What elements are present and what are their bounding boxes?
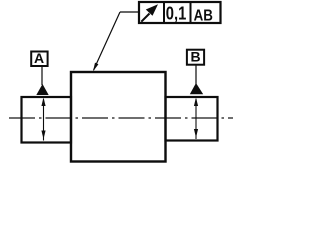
leader from FCF to middle section: horizontal segment — [120, 11, 139, 13]
left dimension down arrowhead — [41, 131, 45, 140]
shaft right journal (small rectangle) — [166, 97, 218, 141]
datum A filled triangle — [36, 84, 48, 95]
svg-text:A: A — [34, 50, 44, 66]
shaft left journal (small rectangle) — [22, 97, 72, 143]
right dimension up arrowhead — [194, 98, 198, 107]
circular runout symbol (slanted arrow) tail — [141, 14, 149, 22]
centerline (shaft axis, dash-dot) — [9, 117, 233, 119]
right diameter dimension line — [195, 99, 197, 139]
datum B stem — [195, 66, 197, 85]
feature control frame outer box — [139, 2, 221, 23]
right dimension down arrowhead — [194, 129, 198, 138]
svg-text:AB: AB — [194, 8, 213, 25]
leader arrowhead at surface — [93, 63, 98, 72]
datum A stem — [41, 67, 43, 85]
circular runout symbol arrowhead — [146, 4, 158, 16]
shaft middle section (large rectangle) — [71, 72, 166, 162]
svg-text:0,1: 0,1 — [166, 4, 187, 24]
leader diagonal segment — [94, 12, 120, 70]
FCF separator 1 — [163, 2, 165, 23]
FCF separator 2 — [190, 2, 192, 23]
svg-text:B: B — [190, 49, 200, 65]
datum A symbol box — [31, 52, 47, 67]
left diameter dimension line — [43, 99, 45, 141]
datum B filled triangle — [190, 83, 203, 94]
datum B symbol box — [187, 50, 204, 65]
left dimension up arrowhead — [41, 98, 45, 107]
